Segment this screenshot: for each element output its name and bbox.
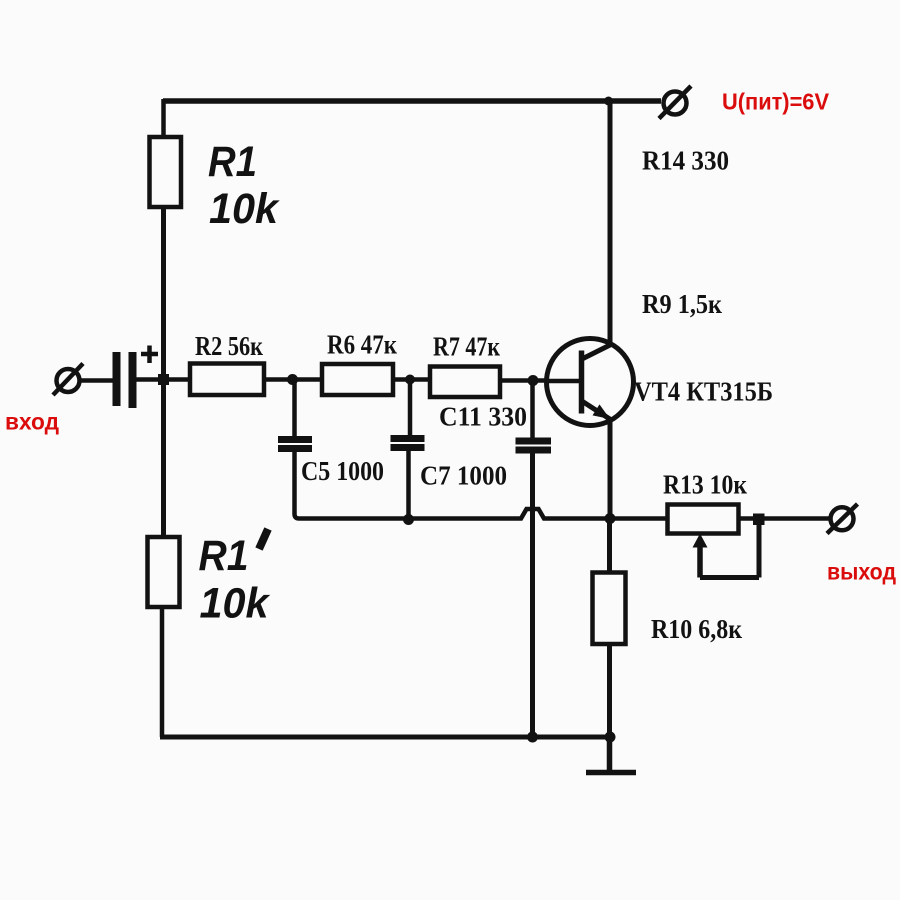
wire bottom ground rail xyxy=(160,735,610,740)
capacitor C7 bottom lead xyxy=(406,451,411,519)
svg-text:R1: R1 xyxy=(199,532,249,580)
svg-text:10k: 10k xyxy=(200,580,271,628)
node junction R10-ground xyxy=(605,732,616,743)
svg-text:10k: 10k xyxy=(209,185,280,233)
wire R1 top lead xyxy=(161,99,166,137)
input terminal xyxy=(57,369,80,392)
svg-text:R2 56к: R2 56к xyxy=(195,331,263,361)
ground xyxy=(586,737,636,773)
transistor VT4 base lead xyxy=(547,379,580,384)
wire R10 top lead xyxy=(607,518,612,573)
wire R13 to output terminal xyxy=(739,516,830,521)
emitter arrowhead xyxy=(593,404,611,419)
resistor R2 xyxy=(190,364,264,396)
wire R7 to base xyxy=(500,378,549,383)
wire top rail xyxy=(163,98,661,104)
capacitor C7 plates xyxy=(391,435,425,442)
transistor VT4 emitter xyxy=(581,401,611,420)
svg-text:выход: выход xyxy=(827,559,896,585)
wire mid rail with hop xyxy=(299,509,668,519)
wire R10 bottom lead xyxy=(607,644,612,737)
node junction collector-rail xyxy=(604,97,613,106)
power terminal U(pit) xyxy=(664,92,687,115)
wire R1' bottom lead xyxy=(160,607,165,737)
node junction R2-C5 xyxy=(287,374,298,385)
transistor VT4 collector xyxy=(581,344,612,360)
wire input to capacitor xyxy=(79,378,113,383)
capacitor C input plate left xyxy=(113,352,121,406)
wire collector to top rail xyxy=(608,101,613,343)
wire left vertical R1 to R1' xyxy=(161,207,166,537)
R13 wiper arrow xyxy=(693,534,708,548)
svg-text:R1: R1 xyxy=(208,138,257,186)
wire capacitor to R2 xyxy=(136,377,190,382)
svg-text:C11 330: C11 330 xyxy=(439,402,527,432)
resistor R7 xyxy=(430,367,500,398)
node junction input xyxy=(158,374,169,385)
capacitor C11 bottom lead xyxy=(530,453,535,737)
wire R2 to R6 xyxy=(264,377,322,382)
capacitor C5 bottom lead xyxy=(295,452,300,519)
capacitor C5 plates xyxy=(278,436,312,443)
svg-text:R14 330: R14 330 xyxy=(642,146,729,176)
wire emitter down xyxy=(608,420,613,518)
node junction base-C11 xyxy=(528,375,539,386)
node junction R6-C7 xyxy=(405,375,415,385)
wire R6 to R7 xyxy=(393,377,430,382)
resistor R10 xyxy=(593,573,626,645)
capacitor C11 top lead xyxy=(530,381,535,439)
capacitor C11 plates xyxy=(516,438,552,445)
svg-text:R13 10к: R13 10к xyxy=(663,470,747,500)
R1' prime mark xyxy=(259,529,268,549)
resistor R1 xyxy=(150,137,182,207)
transistor VT4 base bar xyxy=(579,351,585,414)
svg-text:R6 47к: R6 47к xyxy=(327,330,397,360)
transistor VT4 body xyxy=(547,339,634,426)
node junction emitter-midwire xyxy=(605,513,616,524)
node junction wiper-output xyxy=(753,514,765,526)
svg-text:VT4 КТ315Б: VT4 КТ315Б xyxy=(634,377,773,407)
svg-text:U(пит)=6V: U(пит)=6V xyxy=(722,89,830,115)
svg-text:R9 1,5к: R9 1,5к xyxy=(642,289,722,319)
svg-text:R10 6,8к: R10 6,8к xyxy=(651,614,742,644)
capacitor C7 top lead xyxy=(408,380,413,436)
svg-text:C7 1000: C7 1000 xyxy=(420,461,507,491)
capacitor C5 top lead xyxy=(292,380,297,437)
wire wiper to output xyxy=(700,524,759,578)
node junction C11-bottom xyxy=(527,732,538,743)
capacitor C input plate right xyxy=(129,352,137,408)
svg-text:R7 47к: R7 47к xyxy=(433,332,500,362)
polarity plus sign xyxy=(141,346,158,364)
node junction C7-midwire xyxy=(403,514,414,525)
svg-text:вход: вход xyxy=(5,409,59,435)
resistor R1' xyxy=(148,537,180,607)
output terminal xyxy=(831,507,854,530)
resistor R13 potentiometer xyxy=(668,505,739,534)
resistor R6 xyxy=(322,364,393,395)
svg-text:C5 1000: C5 1000 xyxy=(301,456,384,486)
